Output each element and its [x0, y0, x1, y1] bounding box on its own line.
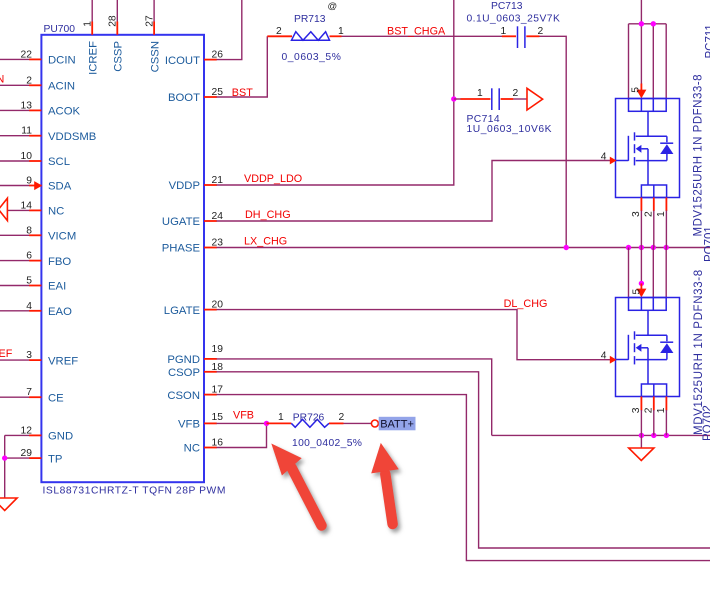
- svg-text:NC: NC: [48, 206, 64, 218]
- svg-text:BATT+: BATT+: [380, 419, 414, 431]
- svg-text:PU700: PU700: [44, 24, 76, 35]
- pin 6 FBO wire: [0, 251, 71, 268]
- pin 4 EAO wire: [0, 301, 72, 318]
- part label PQ702 MDV1525URH: [693, 269, 710, 441]
- svg-text:FBO: FBO: [48, 256, 71, 268]
- svg-text:2: 2: [339, 412, 345, 423]
- svg-text:VFB: VFB: [178, 419, 200, 431]
- svg-text:1U_0603_10V6K: 1U_0603_10V6K: [467, 124, 553, 135]
- wire net ICOUT pin26: [217, 0, 242, 60]
- junction LX bus: [639, 245, 644, 250]
- svg-text:VICM: VICM: [48, 231, 76, 243]
- svg-text:8: 8: [26, 225, 32, 236]
- svg-text:15: 15: [212, 412, 224, 423]
- wire net VDDP_LDO pin21: [217, 0, 454, 185]
- wire net CSON pin17: [217, 395, 710, 561]
- wire net BST_CHGA: [342, 26, 503, 38]
- svg-text:VDDSMB: VDDSMB: [48, 131, 96, 143]
- svg-text:PC713: PC713: [491, 1, 523, 12]
- input arrow pin 9 SDA: [34, 181, 42, 190]
- svg-text:1: 1: [656, 407, 667, 413]
- svg-text:13: 13: [21, 100, 33, 111]
- pin 24 UGATE stub: [162, 211, 223, 228]
- svg-text:UGATE: UGATE: [162, 216, 201, 228]
- net label BATT+ highlighted: [379, 417, 416, 431]
- svg-text:VFB: VFB: [233, 410, 254, 422]
- svg-text:PC711: PC711: [705, 24, 710, 58]
- pin 3 VREF wire: [0, 350, 78, 367]
- svg-text:PGND: PGND: [167, 354, 200, 366]
- pin 5 arrow PQ702: [631, 283, 646, 297]
- pin 9 SDA wire: [0, 176, 72, 193]
- svg-text:PR726: PR726: [293, 413, 325, 424]
- svg-text:EAO: EAO: [48, 306, 72, 318]
- svg-text:4: 4: [26, 301, 32, 312]
- part label PQ701 MDV1525URH: [693, 74, 710, 262]
- pin 17 CSON stub: [167, 385, 223, 402]
- pin 26 ICOUT stub: [165, 50, 223, 67]
- svg-text:7: 7: [26, 387, 32, 398]
- pin 7 CE wire: [0, 387, 64, 404]
- pin 5 arrow PQ701: [631, 84, 647, 99]
- wire net VFB pin15: [217, 410, 267, 424]
- svg-text:CSSP: CSSP: [113, 41, 125, 72]
- svg-text:DH_CHG: DH_CHG: [245, 209, 291, 221]
- pin 21 VDDP stub: [169, 175, 224, 192]
- pin 15 VFB stub: [178, 412, 223, 430]
- ground symbol right: [629, 435, 654, 460]
- pin 20 LGATE stub: [164, 300, 223, 317]
- svg-text:12: 12: [21, 425, 33, 436]
- svg-text:ISL88731CHRTZ-T TQFN 28P PWM: ISL88731CHRTZ-T TQFN 28P PWM: [43, 486, 226, 497]
- wire PC713 pin2 to LX: [540, 36, 567, 247]
- svg-text:ICOUT: ICOUT: [165, 55, 200, 67]
- capacitor PC713: [467, 1, 561, 48]
- svg-text:VREF: VREF: [48, 355, 78, 367]
- svg-text:10: 10: [21, 151, 33, 162]
- svg-text:2: 2: [513, 88, 519, 99]
- no-connect triangle pin 14: [0, 198, 7, 220]
- pin 4 gate arrow PQ701: [601, 152, 617, 165]
- pin 16 NC stub: [184, 438, 224, 455]
- svg-text:VDDP_LDO: VDDP_LDO: [244, 173, 302, 185]
- pin 10 SCL wire: [0, 151, 70, 168]
- svg-text:4: 4: [601, 351, 607, 362]
- capacitor PC714: [454, 88, 552, 135]
- junction LX bus: [626, 245, 631, 250]
- junction GND bus: [651, 433, 656, 438]
- pin 22 DCIN wire: [0, 49, 76, 66]
- junction VFB node: [264, 421, 269, 426]
- svg-text:1: 1: [477, 88, 483, 99]
- wire net DL_CHG pin20: [217, 298, 612, 360]
- source pins 3 2 1 PQ701: [631, 198, 667, 248]
- svg-text:100_0402_5%: 100_0402_5%: [292, 438, 362, 449]
- transistor Q PQ701 MDV1525URH: [616, 99, 680, 198]
- pin 1 ICREF top wire: [82, 0, 99, 75]
- svg-text:PR713: PR713: [294, 14, 326, 25]
- resistor PR726: [267, 412, 363, 449]
- IC U700 PU700 ISL88731 body: [41, 24, 226, 497]
- resistor PR713: [267, 14, 344, 63]
- svg-text:ICREF: ICREF: [88, 41, 100, 75]
- svg-text:GND: GND: [48, 431, 73, 443]
- wire pin16 NC to VFB: [217, 423, 267, 447]
- svg-text:2: 2: [538, 26, 544, 37]
- svg-text:3: 3: [631, 407, 642, 413]
- junction LX bus: [651, 245, 656, 250]
- junction rail 2: [651, 21, 656, 26]
- svg-text:3: 3: [631, 211, 642, 217]
- svg-text:EAI: EAI: [48, 281, 66, 293]
- annotation arrow 1 (VFB): [271, 444, 321, 526]
- pin 2 ACIN wire: [0, 75, 75, 92]
- svg-text:6: 6: [26, 251, 32, 262]
- svg-text:1: 1: [656, 211, 667, 217]
- svg-text:1: 1: [278, 412, 284, 423]
- svg-text:2: 2: [644, 407, 655, 413]
- svg-text:3: 3: [26, 350, 32, 361]
- svg-text:BST: BST: [232, 87, 253, 99]
- svg-text:PHASE: PHASE: [162, 243, 201, 255]
- wire GND vertical to ground: [4, 435, 6, 498]
- wire GND bus: [492, 434, 710, 436]
- pin 25 BOOT stub: [168, 87, 223, 104]
- junction GND/TP: [2, 455, 7, 460]
- pin 11 VDDSMB wire: [0, 126, 96, 143]
- pin 5 EAI wire: [0, 276, 66, 293]
- svg-text:1: 1: [338, 26, 344, 37]
- pin 23 PHASE stub: [162, 238, 224, 255]
- wire net PGND pin19: [217, 359, 492, 436]
- junction pin5 PQ702: [639, 281, 644, 286]
- pin 14 NC wire: [7, 200, 64, 217]
- svg-text:14: 14: [21, 200, 33, 211]
- svg-text:PQ702: PQ702: [702, 405, 710, 441]
- wire drain leads PQ702: [629, 248, 667, 298]
- pin 4 gate arrow PQ702: [601, 351, 617, 364]
- svg-text:MDV1525URH 1N PDFN33-8: MDV1525URH 1N PDFN33-8: [693, 74, 705, 236]
- pin 27 CSSN top wire: [144, 0, 161, 72]
- svg-text:TP: TP: [48, 453, 62, 465]
- svg-text:2: 2: [26, 75, 32, 86]
- junction LX bus: [564, 245, 569, 250]
- svg-text:CSOP: CSOP: [168, 367, 200, 379]
- svg-text:PQ701: PQ701: [704, 226, 710, 262]
- source pins 3 2 1 PQ702: [631, 397, 667, 436]
- svg-text:4: 4: [601, 152, 607, 163]
- svg-text:BST_CHGA: BST_CHGA: [387, 26, 446, 38]
- svg-text:CSON: CSON: [167, 390, 200, 402]
- svg-text:VDDP: VDDP: [169, 180, 200, 192]
- pin 12 GND wire: [5, 425, 73, 442]
- node BATT+ terminal circle: [371, 420, 378, 427]
- wire drain rail top PQ701: [629, 0, 667, 99]
- wire net LX_CHG bus pin23: [217, 236, 710, 248]
- svg-text:@: @: [328, 1, 338, 12]
- svg-text:LX_CHG: LX_CHG: [244, 236, 287, 248]
- svg-text:2: 2: [644, 211, 655, 217]
- pin 8 VICM wire: [0, 225, 76, 242]
- svg-text:19: 19: [212, 344, 224, 355]
- svg-text:5: 5: [631, 87, 642, 93]
- transistor Q PQ702 MDV1525URH: [616, 298, 680, 397]
- svg-text:BOOT: BOOT: [168, 92, 200, 104]
- svg-text:28: 28: [108, 15, 119, 27]
- svg-text:DL_CHG: DL_CHG: [504, 298, 548, 310]
- svg-text:ACIN: ACIN: [48, 81, 75, 93]
- svg-text:LGATE: LGATE: [164, 305, 201, 317]
- svg-text:9: 9: [26, 176, 32, 187]
- svg-text:SDA: SDA: [48, 181, 72, 193]
- power arrow VDDP: [527, 88, 543, 110]
- svg-text:27: 27: [144, 15, 155, 27]
- annotation arrow 2 (BATT+): [371, 443, 399, 524]
- svg-text:0.1U_0603_25V7K: 0.1U_0603_25V7K: [467, 14, 561, 25]
- svg-text:DCIN: DCIN: [48, 55, 76, 67]
- svg-text:NC: NC: [184, 443, 200, 455]
- svg-text:11: 11: [21, 126, 32, 137]
- junction GND bus: [664, 433, 669, 438]
- svg-text:CSSN: CSSN: [149, 41, 161, 72]
- svg-text:1: 1: [501, 26, 507, 37]
- ground symbol left: [0, 498, 17, 511]
- svg-text:CE: CE: [48, 392, 64, 404]
- pin 13 ACOK wire: [0, 100, 80, 117]
- svg-text:EF: EF: [0, 348, 13, 360]
- svg-text:5: 5: [631, 289, 642, 295]
- pin 28 CSSP top wire: [108, 0, 125, 72]
- junction rail 1: [639, 21, 644, 26]
- wire net CSOP pin18: [217, 372, 710, 548]
- pin 29 TP wire: [5, 448, 63, 465]
- wire net DH_CHG pin24: [217, 161, 612, 222]
- junction LX bus: [664, 245, 669, 250]
- pin 18 CSOP stub: [168, 362, 223, 379]
- wire net BST pin25: [217, 36, 268, 99]
- svg-text:22: 22: [21, 49, 33, 60]
- svg-text:2: 2: [276, 26, 282, 37]
- svg-text:0_0603_5%: 0_0603_5%: [282, 52, 342, 63]
- svg-text:1: 1: [82, 21, 93, 27]
- wire to BATT+: [344, 422, 372, 424]
- svg-text:SCL: SCL: [48, 156, 70, 168]
- pin 19 PGND stub: [167, 344, 223, 366]
- svg-text:5: 5: [26, 276, 32, 287]
- junction GND bus: [639, 433, 644, 438]
- junction VDDP/PC714: [451, 96, 456, 101]
- svg-text:N: N: [0, 74, 4, 86]
- svg-text:ACOK: ACOK: [48, 106, 80, 118]
- svg-text:29: 29: [21, 448, 33, 459]
